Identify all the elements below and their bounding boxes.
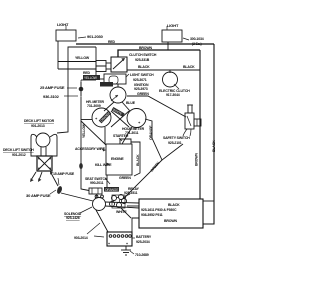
- svg-text:925-1611 F930 & F930C: 925-1611 F930 & F930C: [141, 208, 177, 212]
- wire battery up to pn box: [132, 218, 139, 232]
- wire fuse down vertical: [81, 97, 89, 191]
- solenoid: [93, 198, 106, 211]
- svg-text:YELLOW: YELLOW: [75, 56, 90, 60]
- fuse F1: [80, 80, 82, 86]
- svg-text:925-331B: 925-331B: [135, 58, 150, 62]
- svg-text:300-1034: 300-1034: [190, 37, 204, 41]
- svg-text:903-2014: 903-2014: [74, 236, 88, 240]
- svg-text:BLACK: BLACK: [138, 65, 150, 69]
- svg-text:CLUTCH SWITCH: CLUTCH SWITCH: [129, 53, 157, 57]
- arrows below switch: [31, 172, 36, 180]
- wire RED top: [76, 43, 214, 45]
- svg-text:LIGHT: LIGHT: [57, 22, 69, 27]
- svg-text:DECK LIFT SWITCH: DECK LIFT SWITCH: [3, 148, 34, 152]
- svg-text:+: +: [126, 242, 128, 246]
- wire meter to engine: [122, 127, 132, 144]
- lamp L2: [162, 30, 182, 42]
- wire left-meter to engine corner: [104, 127, 106, 144]
- svg-text:+: +: [108, 242, 110, 246]
- svg-text:SAFETY SWITCH: SAFETY SWITCH: [163, 136, 190, 140]
- svg-text:LIGHT: LIGHT: [167, 23, 179, 28]
- wire ignition diagonals: [104, 102, 114, 111]
- svg-text:STARTER: STARTER: [113, 134, 129, 138]
- svg-text:936-3102: 936-3102: [43, 94, 60, 99]
- svg-text:925-2034: 925-2034: [136, 240, 150, 244]
- svg-text:LIGHT SWITCH: LIGHT SWITCH: [130, 73, 154, 77]
- engine box: [120, 139, 131, 144]
- svg-text:ENGINE: ENGINE: [111, 157, 124, 161]
- svg-text:731-3009: 731-3009: [87, 104, 101, 108]
- svg-text:901-2030: 901-2030: [87, 34, 104, 39]
- svg-text:BROWN: BROWN: [139, 46, 152, 50]
- wire solenoid to battery: [96, 210, 108, 232]
- svg-text:YELLOW: YELLOW: [84, 76, 97, 80]
- svg-text:990-2011: 990-2011: [90, 181, 104, 185]
- wire switch to fuse: [51, 173, 58, 186]
- light switch S2: [104, 74, 126, 84]
- wire lamp2 stub: [167, 42, 169, 50]
- svg-text:ORANGE: ORANGE: [149, 125, 153, 140]
- svg-text:BROWN: BROWN: [164, 219, 177, 223]
- label YELLOW band: [83, 75, 100, 80]
- wire lamp1 down + yellow feed: [57, 41, 59, 69]
- svg-text:901-2012: 901-2012: [12, 153, 26, 157]
- wire ignition to safety switch GREEN: [127, 96, 186, 117]
- svg-text:15 AMP FUSE: 15 AMP FUSE: [53, 172, 75, 176]
- svg-text:901-2013: 901-2013: [31, 124, 45, 128]
- svg-text:KILL WIRE: KILL WIRE: [95, 163, 112, 167]
- battery: [107, 232, 132, 246]
- svg-text:BROWN: BROWN: [195, 153, 199, 166]
- wire fuse branch to engine corner: [81, 121, 106, 145]
- svg-text:925-3511: 925-3511: [124, 191, 138, 195]
- svg-text:710-2689: 710-2689: [135, 253, 149, 257]
- svg-text:925-2101: 925-2101: [168, 141, 182, 145]
- svg-text:BLACK: BLACK: [136, 154, 140, 166]
- wires motor loop: [31, 134, 38, 156]
- svg-text:BLACK: BLACK: [168, 203, 180, 207]
- pointer electric clutch label: [174, 84, 179, 89]
- wire clutch to right BLACK: [127, 69, 200, 71]
- wire BROWN top: [118, 50, 200, 57]
- svg-text:RED: RED: [108, 40, 116, 44]
- svg-text:925-3071: 925-3071: [133, 78, 147, 82]
- ignition switch S4: [117, 84, 119, 87]
- part number box: [139, 199, 203, 228]
- wire branch to clutch switch: [95, 47, 97, 80]
- svg-text:GREEN: GREEN: [119, 176, 131, 180]
- svg-text:925-1426: 925-1426: [66, 216, 80, 220]
- clutch switch S1: [111, 57, 127, 72]
- svg-text:BLACK: BLACK: [212, 140, 216, 152]
- svg-text:BLUE: BLUE: [126, 101, 136, 105]
- wire right vertical BLACK: [203, 44, 214, 224]
- wire meter right to orange vertical: [124, 119, 162, 198]
- svg-text:30 AMP FUSE: 30 AMP FUSE: [26, 193, 51, 198]
- svg-text:BATTERY: BATTERY: [136, 235, 152, 239]
- wire engine bottom to seat band: [106, 175, 108, 187]
- wire safety to engine GREEN diagonal: [162, 144, 183, 160]
- svg-text:RED: RED: [83, 71, 91, 75]
- wire engine right vertical: [131, 142, 140, 176]
- svg-text:ACCESSORY WIRE: ACCESSORY WIRE: [75, 147, 106, 151]
- safety switch S3: [188, 105, 192, 113]
- ground: [125, 246, 127, 250]
- svg-text:BLACK: BLACK: [183, 65, 195, 69]
- svg-text:917-3044: 917-3044: [166, 93, 180, 97]
- wire right vertical BROWN: [199, 50, 201, 199]
- wire left long vertical: [57, 47, 96, 133]
- svg-text:925-3973: 925-3973: [134, 87, 148, 91]
- svg-text:GREEN: GREEN: [137, 92, 149, 96]
- svg-text:DECK LIFT MOTOR: DECK LIFT MOTOR: [24, 119, 55, 123]
- wire fuse to solenoid: [61, 193, 93, 201]
- lamp L1: [56, 30, 76, 41]
- wire relay to pn box: [127, 205, 139, 207]
- svg-text:25 AMP FUSE: 25 AMP FUSE: [40, 85, 65, 90]
- svg-text:ORANGE: ORANGE: [105, 188, 118, 192]
- svg-text:WHITE: WHITE: [116, 210, 127, 214]
- svg-text:936-3952 F911: 936-3952 F911: [141, 213, 163, 217]
- electric clutch M1: [169, 70, 171, 73]
